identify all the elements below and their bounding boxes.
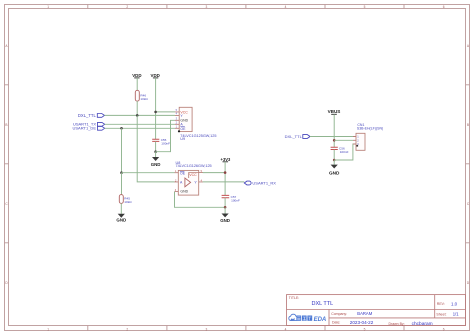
title block: [287, 295, 466, 326]
CN1 pin1 marker: [356, 145, 358, 147]
svg-text:VBUS: VBUS: [328, 109, 341, 114]
junction DE net: [120, 127, 123, 130]
svg-text:DXL TTL: DXL TTL: [312, 301, 334, 307]
junction ground node right: [333, 159, 336, 162]
svg-text:2: 2: [126, 5, 128, 9]
wire VBUS to CN1 pin2: [334, 139, 353, 141]
junction VBUS pin2: [333, 139, 336, 142]
svg-text:Company:: Company:: [331, 312, 347, 316]
svg-text:100nF: 100nF: [340, 150, 349, 154]
wire U8 Y to USART1_RX: [203, 181, 245, 183]
wire GND node to U9 GND pin: [156, 120, 175, 151]
wire +3V3 rail: [224, 162, 226, 196]
svg-text:S3B-EH(LF)(SN): S3B-EH(LF)(SN): [357, 127, 383, 131]
ground GND (under C55): [151, 152, 161, 167]
CN1 pin stubs: [353, 137, 356, 145]
resistor R45: [119, 195, 132, 204]
svg-text:VDD: VDD: [132, 73, 141, 78]
svg-text:6: 6: [443, 328, 445, 332]
wire R45 to GND: [120, 203, 122, 213]
port DXL_TTL (right): [285, 134, 310, 139]
ground GND (under C57): [220, 207, 230, 223]
svg-text:100nF: 100nF: [231, 199, 240, 203]
svg-text:74LVC1G126GW,125: 74LVC1G126GW,125: [176, 164, 212, 168]
svg-text:2023-04-22: 2023-04-22: [350, 320, 374, 325]
svg-text:Date:: Date:: [332, 321, 340, 325]
wire CN1 pin3 to ground: [334, 144, 353, 160]
port USART1_RX: [244, 180, 276, 185]
svg-text:U9: U9: [180, 137, 185, 141]
svg-text:DXL_TTL: DXL_TTL: [78, 113, 97, 118]
port USART1_TX: [73, 122, 105, 127]
svg-text:TITLE:: TITLE:: [289, 296, 300, 300]
CN1 pin numbers: [357, 135, 359, 147]
power flag VDD (left): [132, 73, 141, 78]
svg-text:3: 3: [206, 5, 208, 9]
wire DXL_TTL to CN1 pin1: [310, 136, 353, 138]
svg-text:USART1_DE: USART1_DE: [73, 126, 97, 131]
ground GND (right section): [329, 160, 340, 175]
svg-text:VDD: VDD: [151, 73, 160, 78]
wire U8 GND to ground rail: [175, 192, 226, 208]
svg-text:3: 3: [206, 328, 208, 332]
junction DE-OE node: [120, 171, 123, 174]
wire C55 to GND node: [155, 141, 157, 151]
svg-text:1.0: 1.0: [451, 301, 458, 306]
svg-text:100nF: 100nF: [161, 142, 170, 146]
U9 pin numbers: [176, 108, 178, 128]
svg-text:Drawn By:: Drawn By:: [389, 322, 405, 326]
svg-text:10kΩ: 10kΩ: [140, 97, 148, 101]
capacitor C56: [331, 147, 349, 155]
wire DXL_TTL to U9 Y: [104, 114, 175, 116]
U9 pin stubs: [175, 112, 179, 128]
wire VCC branch to U9: [156, 111, 175, 113]
U8 pin numbers: [175, 170, 203, 192]
svg-text:BARAM: BARAM: [357, 311, 372, 316]
wire USART1_DE to U9 OE: [105, 127, 175, 129]
wire R46 to DXL_TTL net: [136, 101, 138, 115]
resistor R46: [135, 90, 148, 101]
svg-text:GND: GND: [151, 162, 161, 167]
svg-text:+3V3: +3V3: [221, 157, 231, 162]
wire U8 VCC to +3V3 rail: [203, 172, 225, 174]
svg-text:5: 5: [364, 328, 366, 332]
svg-text:OE: OE: [180, 127, 186, 131]
junction GND node: [154, 150, 157, 153]
capacitor C55: [152, 138, 170, 146]
wire DE to R45: [121, 173, 123, 195]
junction ground node: [224, 206, 227, 209]
wire VDD rail down to C55: [155, 78, 157, 139]
svg-text:REV:: REV:: [437, 302, 445, 306]
wire VBUS rail: [333, 114, 335, 147]
svg-text:B: B: [467, 123, 469, 127]
svg-text:B: B: [5, 123, 7, 127]
op-amp buffer U9: [178, 107, 192, 132]
capacitor C57: [222, 195, 240, 203]
svg-text:EDA: EDA: [314, 317, 327, 323]
svg-text:DXL_TTL: DXL_TTL: [285, 134, 303, 139]
svg-text:chcbaram: chcbaram: [412, 321, 433, 327]
svg-text:6: 6: [443, 5, 445, 9]
power flag VDD (right): [151, 73, 160, 78]
svg-text:2: 2: [126, 328, 128, 332]
svg-text:74LVC1G125GW,125: 74LVC1G125GW,125: [180, 134, 216, 138]
svg-text:USART1_RX: USART1_RX: [252, 180, 276, 185]
ground GND (under R45): [116, 214, 126, 223]
wire DE to U8 OE: [122, 172, 175, 174]
junction +3V3 VCC: [224, 171, 227, 174]
svg-text:5: 5: [364, 5, 366, 9]
connector CN1: [356, 123, 383, 150]
wire C56 to GND node: [333, 150, 335, 161]
junction VDD-VCC: [154, 111, 157, 114]
junction DXL net: [136, 114, 139, 117]
U8 pin stubs: [175, 173, 204, 192]
svg-text:GND: GND: [220, 218, 230, 223]
wire C57 to GND: [224, 198, 226, 208]
svg-text:10kΩ: 10kΩ: [124, 200, 132, 204]
U8 reference label: [176, 161, 212, 168]
svg-text:1/1: 1/1: [453, 312, 459, 317]
svg-text:1: 1: [47, 5, 49, 9]
svg-text:GND: GND: [180, 190, 188, 194]
port USART1_DE: [73, 126, 105, 131]
op-amp buffer U8: [178, 170, 198, 195]
svg-text:VCC: VCC: [189, 173, 197, 177]
svg-text:GND: GND: [116, 218, 126, 223]
wire DXL branch to U8 A: [137, 115, 174, 181]
wire VDD to R46: [136, 78, 138, 90]
svg-text:4: 4: [285, 328, 287, 332]
svg-text:1: 1: [47, 328, 49, 332]
power flag VBUS: [328, 109, 341, 115]
wire DE branch down: [121, 128, 123, 172]
logo EasyEDA: [289, 314, 326, 323]
U9 value label: [180, 134, 216, 141]
svg-text:GND: GND: [329, 170, 340, 175]
wire USART1_TX to U9 A: [105, 123, 175, 125]
port DXL_TTL (left): [78, 113, 105, 118]
power flag +3V3: [221, 157, 231, 162]
svg-text:OE: OE: [180, 171, 186, 175]
svg-text:4: 4: [285, 5, 287, 9]
svg-text:Sheet:: Sheet:: [436, 313, 446, 317]
